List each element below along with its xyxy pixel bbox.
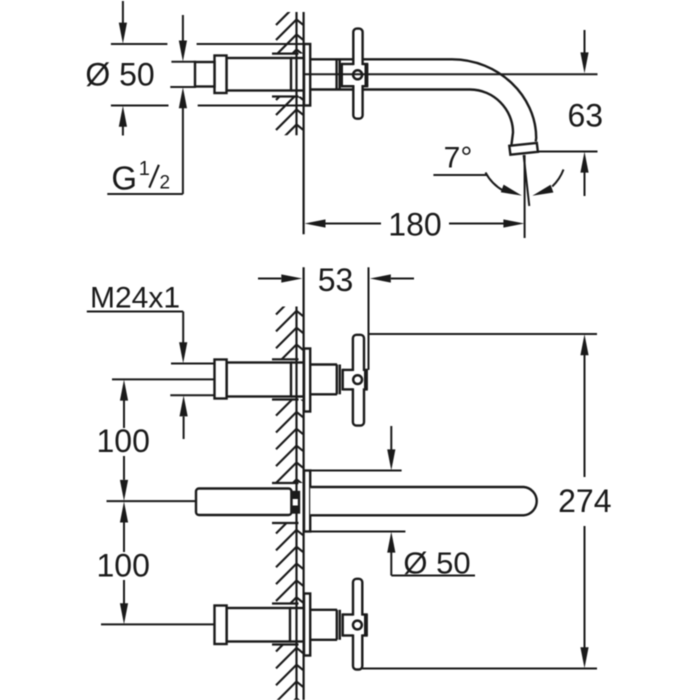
svg-text:7°: 7° [444, 141, 473, 174]
svg-text:100: 100 [97, 548, 150, 584]
svg-text:63: 63 [568, 97, 604, 133]
svg-text:53: 53 [318, 262, 354, 298]
svg-text:G: G [111, 159, 137, 196]
svg-text:Ø 50: Ø 50 [403, 546, 470, 581]
svg-text:M24x1: M24x1 [90, 282, 180, 315]
svg-text:100: 100 [97, 423, 150, 459]
svg-text:2: 2 [160, 173, 171, 194]
svg-text:1: 1 [139, 158, 150, 180]
svg-text:Ø 50: Ø 50 [85, 57, 154, 93]
svg-text:180: 180 [388, 206, 441, 242]
svg-text:274: 274 [558, 483, 611, 519]
